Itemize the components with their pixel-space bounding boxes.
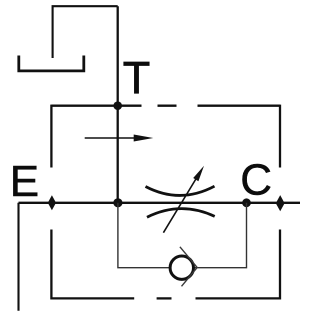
variable restrictor adjustment arrow bbox=[163, 166, 204, 233]
junction dot: T line at enclosure top bbox=[113, 101, 122, 110]
enclosure top edge (dashed) bbox=[51, 105, 280, 107]
port diamond C bbox=[276, 195, 285, 211]
enclosure bottom edge (dashed) bbox=[51, 297, 280, 299]
wire: E drop line bbox=[17, 203, 19, 311]
enclosure left edge (dashed) bbox=[50, 105, 52, 300]
svg-text:E: E bbox=[10, 157, 39, 206]
junction dot: main line / T line bbox=[113, 198, 122, 207]
wire: tank branch from node T bbox=[53, 6, 118, 58]
bypass wire: left branch down and across bbox=[118, 203, 170, 268]
wire: vertical T line bbox=[117, 6, 119, 203]
port diamond E bbox=[48, 195, 56, 210]
variable restrictor bottom arc bbox=[147, 209, 215, 218]
svg-text:C: C bbox=[240, 156, 272, 205]
variable restrictor top arc bbox=[146, 186, 215, 195]
tank (reservoir) symbol bbox=[19, 56, 84, 71]
junction dot: main line / bypass branch bbox=[242, 198, 251, 207]
check valve seat bbox=[180, 247, 197, 286]
bypass wire: right branch across and up bbox=[193, 203, 247, 268]
svg-text:T: T bbox=[123, 53, 151, 104]
wire: main line E to C bbox=[19, 202, 301, 204]
enclosure right edge (dashed) bbox=[279, 105, 281, 300]
pilot flow arrow bbox=[85, 135, 154, 142]
check valve ball (circle) bbox=[170, 256, 193, 279]
